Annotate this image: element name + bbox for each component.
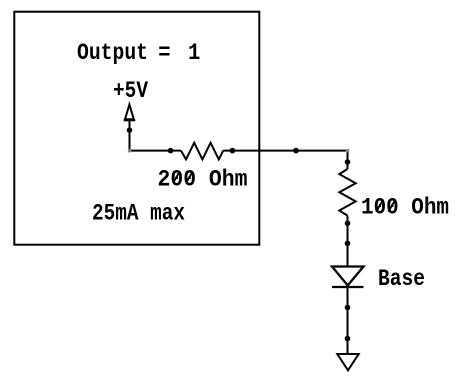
slashed-zero stroke, first 0 of 100 — [376, 200, 383, 212]
svg-text:Base: Base — [378, 266, 425, 292]
svg-text:Output=1: Output=1 — [77, 40, 200, 66]
diode D1 triangle — [332, 267, 364, 286]
gray corner handle at left wire corner — [128, 149, 131, 152]
+5V power symbol (up arrow) — [125, 105, 134, 120]
wire: vertical from corner to resistor R2 — [347, 151, 349, 169]
junction dot below +5V symbol — [127, 127, 133, 133]
resistor R1 200 Ohm zigzag — [181, 143, 223, 160]
+5V symbol base bar — [124, 119, 136, 121]
junction dot above ground — [345, 336, 351, 342]
resistor R1 left terminal dot — [168, 148, 174, 154]
junction dot below diode — [345, 305, 351, 311]
wire junction dot mid-span — [293, 148, 299, 154]
svg-text:25mA max: 25mA max — [92, 201, 185, 227]
svg-text:200 Ohm: 200 Ohm — [158, 166, 248, 192]
ground symbol triangle — [337, 354, 358, 370]
logic output device box — [14, 12, 259, 245]
resistor R2 100 Ohm zigzag — [339, 169, 355, 216]
diode D1 cathode bar — [332, 286, 364, 288]
wire: horizontal run right of resistor — [223, 150, 347, 152]
slashed-zero stroke, first 0 of 200 — [173, 171, 180, 183]
resistor R1 right terminal dot — [230, 148, 236, 154]
slashed-zero stroke, second 0 of 100 — [388, 200, 395, 212]
slashed-zero stroke, second 0 of 200 — [186, 171, 193, 183]
wire: horizontal run left of resistor — [130, 150, 182, 152]
wire: +5V symbol down to corner — [129, 120, 131, 151]
junction dot top of R2 — [345, 159, 351, 165]
junction dot bottom of R2 — [345, 220, 351, 226]
junction dot diode anode — [345, 241, 351, 247]
wire: resistor R2 to diode — [347, 216, 349, 267]
gray corner handle at right wire corner — [346, 149, 349, 152]
svg-text:+5V: +5V — [113, 78, 149, 104]
svg-text:100 Ohm: 100 Ohm — [361, 195, 449, 221]
wire: diode to ground — [347, 287, 349, 354]
